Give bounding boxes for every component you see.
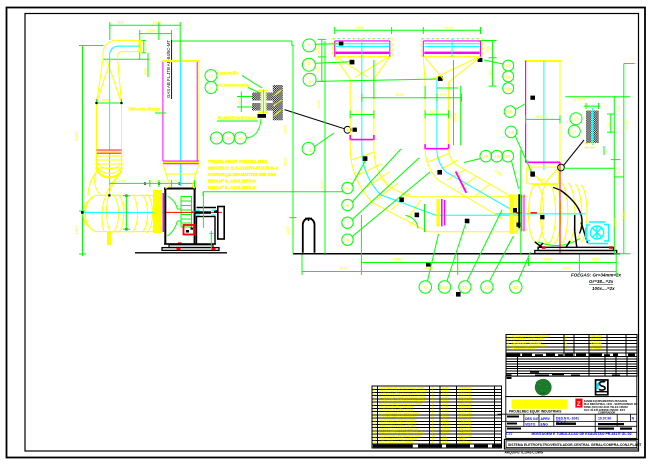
- hood 1 body: [335, 40, 390, 42]
- svg-text:370: 370: [150, 178, 157, 183]
- dim 50: [237, 92, 252, 113]
- weld sq on inlet box: [531, 173, 535, 177]
- flange detail (left view): [205, 70, 357, 144]
- svg-text:6: 6: [346, 203, 349, 208]
- svg-text:5: 5: [346, 186, 349, 191]
- callout circle + arrow: [558, 164, 565, 171]
- top elbow outer (yellow): [103, 40, 139, 59]
- motor bracket (black): [197, 207, 225, 245]
- fan base black: [535, 247, 617, 253]
- lower elbow to horizontal (yellow): [88, 172, 122, 232]
- fan drum rings yellow: [529, 183, 587, 243]
- funnel 1: [335, 57, 390, 79]
- svg-text:23: 23: [573, 117, 579, 122]
- stack cone: [97, 59, 122, 103]
- scroll black outline right: [561, 190, 582, 233]
- duct 1: [350, 79, 374, 135]
- svg-text:21: 21: [572, 129, 578, 134]
- weld squares right view: [350, 60, 535, 297]
- svg-text:1: 1: [308, 42, 311, 47]
- svg-text:1595: 1595: [453, 112, 458, 122]
- drain stub below duct: [107, 232, 111, 246]
- svg-text:MODELO: ILS-1120/H-P/JCR-N-2: MODELO: ILS-1120/H-P/JCR-N-2: [208, 166, 279, 171]
- company yellow band: [512, 400, 568, 409]
- far right verticals: [613, 97, 615, 254]
- ground line left view: [135, 252, 227, 254]
- duct1 dim: [350, 111, 374, 119]
- flange plates yellow: [258, 91, 268, 113]
- svg-text:100x....=2x: 100x....=2x: [592, 286, 615, 291]
- cone seam lines: [97, 59, 122, 103]
- balloons 28 19 17 row: [480, 150, 492, 162]
- svg-text:1:25: 1:25: [506, 432, 513, 436]
- svg-text:4: 4: [209, 86, 212, 91]
- canister: [303, 218, 315, 252]
- dim 3295 row: [362, 97, 462, 99]
- svg-text:Ø781: Ø781: [430, 109, 441, 114]
- svg-text:18: 18: [226, 136, 232, 141]
- top dim row 1: [110, 22, 180, 61]
- balloon numbers: [308, 42, 519, 290]
- company name under band: [509, 410, 561, 414]
- riser left edge magenta: [162, 62, 164, 161]
- elbow1 centerline: [362, 141, 436, 215]
- fan legs black: [535, 223, 588, 249]
- horizontal bellows duct rings: [83, 172, 157, 233]
- svg-text:3000: 3000: [424, 266, 434, 271]
- balloon 23: [570, 113, 582, 125]
- svg-text:CONJ 18: CONJ 18: [459, 440, 472, 444]
- svg-text:VEDAÇÃO: VEDAÇÃO: [219, 71, 239, 76]
- horizontal run: [410, 197, 517, 232]
- lower block outline: [506, 397, 637, 439]
- shaft (black): [195, 211, 212, 214]
- svg-text:760: 760: [316, 66, 321, 73]
- top elbow inner (yellow): [118, 52, 139, 60]
- elbow centerline (cyan): [110, 46, 140, 60]
- left vertical dims: [321, 39, 323, 81]
- big duct dim: [526, 115, 560, 123]
- base red pads: [177, 248, 181, 250]
- svg-text:CARCAÇA DO MOTOR 355 S/M: CARCAÇA DO MOTOR 355 S/M: [208, 172, 276, 177]
- dim 450 bracket: [142, 40, 146, 52]
- long green line to right view: [172, 41, 292, 46]
- funnel 2: [423, 57, 480, 82]
- hood 2 body: [423, 40, 480, 42]
- dims around detail: [584, 103, 614, 155]
- svg-text:10: 10: [442, 285, 448, 290]
- left duct (riser) to fan: [128, 60, 200, 189]
- riser top band yellow: [162, 60, 200, 62]
- fan centerline red: [559, 162, 561, 255]
- svg-text:11: 11: [462, 285, 467, 290]
- svg-text:MONTAGEM E TUBULACAO DE EXAUST: MONTAGEM E TUBULACAO DE EXAUSTAO PR-441 …: [532, 432, 632, 436]
- svg-text:7: 7: [346, 221, 349, 226]
- green leader from fan: [203, 192, 344, 249]
- svg-text:Ø1504: Ø1504: [536, 114, 549, 119]
- balloons 5..8: [342, 182, 353, 193]
- S logo box: [595, 379, 609, 396]
- svg-text:19: 19: [494, 154, 500, 159]
- svg-text:200: 200: [607, 122, 611, 128]
- inlet duct stubs yellow: [517, 197, 529, 230]
- flange detail (right): [558, 97, 614, 171]
- green stamp logo: [535, 379, 552, 396]
- green leader vertical: [202, 192, 204, 228]
- below ground dim row 1: [361, 262, 616, 264]
- svg-text:ENG: ENG: [541, 422, 549, 426]
- cone base dim: [97, 99, 122, 107]
- svg-text:46: 46: [238, 136, 244, 141]
- parts list yellow text rows: [373, 386, 471, 444]
- svg-text:PROJELMEC EQUIP. INDUSTRIAIS: PROJELMEC EQUIP. INDUSTRIAIS: [509, 410, 561, 414]
- riser right edge magenta+yellow: [196, 62, 198, 161]
- inlet box yellow: [527, 167, 559, 184]
- svg-text:SUPORTE DA CHAMINE: SUPORTE DA CHAMINE: [379, 440, 413, 444]
- svg-text:600: 600: [316, 46, 321, 53]
- address text right of Z: [584, 399, 638, 415]
- dim labels right view: [283, 45, 629, 270]
- revision table: [506, 335, 637, 357]
- svg-text:DES 047: DES 047: [525, 417, 539, 421]
- svg-text:Gr=38...=2x: Gr=38...=2x: [589, 279, 614, 284]
- fan centerline cyan: [495, 213, 585, 215]
- balloons 9..13: [419, 281, 431, 293]
- thin rows table: [506, 357, 637, 377]
- right view dimensions: [290, 39, 635, 275]
- leaders: [242, 76, 262, 93]
- svg-text:500: 500: [485, 45, 490, 52]
- svg-text:28: 28: [483, 154, 489, 159]
- svg-text:50: 50: [237, 100, 241, 104]
- hood1 weld mark: [339, 42, 344, 46]
- svg-text:1387: 1387: [285, 225, 290, 235]
- hood 1 insulation dashed outline: [332, 39, 393, 57]
- spec text block (yellow): [208, 159, 279, 190]
- hood 2 insulation dashed outline: [421, 39, 483, 57]
- svg-text:4627: 4627: [320, 179, 325, 189]
- duct centerline cyan: [83, 211, 167, 213]
- svg-text:DES.Nº IL-1041 REV.3: DES.Nº IL-1041 REV.3: [208, 179, 255, 184]
- elbow 1 (lobster-back): [350, 140, 428, 232]
- svg-text:1500: 1500: [316, 99, 321, 109]
- svg-text:1650: 1650: [591, 257, 601, 262]
- svg-text:Ø1420: Ø1420: [122, 203, 127, 216]
- svg-text:Ø781: Ø781: [355, 109, 366, 114]
- fan motor red box: [184, 225, 195, 235]
- elbow2 centerline: [437, 150, 512, 210]
- elbow 2: [425, 149, 517, 219]
- svg-text:1080: 1080: [146, 29, 156, 34]
- balloon 21: [568, 125, 580, 137]
- stack flange band (magenta): [97, 150, 122, 153]
- blue texts mid grid: [525, 416, 635, 426]
- svg-text:1000: 1000: [488, 69, 493, 79]
- duct 2: [425, 82, 449, 144]
- balloon 4: [205, 82, 217, 94]
- inlet flange magenta: [521, 195, 523, 232]
- svg-text:805: 805: [440, 92, 447, 97]
- small red tick: [178, 242, 181, 244]
- dim line 1420/370/1630/430: [110, 180, 195, 187]
- svg-text:16: 16: [506, 74, 512, 79]
- svg-text:2780: 2780: [543, 257, 553, 262]
- svg-text:FLANGE SOLDADA: FLANGE SOLDADA: [218, 116, 257, 121]
- hood 1 centerline: [361, 39, 363, 57]
- leaders: [315, 43, 338, 45]
- svg-text:4260: 4260: [623, 119, 628, 129]
- svg-text:Ø782: Ø782: [102, 98, 113, 103]
- riser bottom flange magenta band: [163, 161, 199, 164]
- svg-text:19: 19: [208, 74, 214, 79]
- black marks mid grid: [507, 416, 632, 430]
- balloons 17 16 18 15 14: [503, 60, 514, 71]
- duct2 flange magenta: [425, 144, 449, 149]
- riser centerline cyan: [180, 60, 182, 186]
- point markers: [81, 102, 181, 230]
- svg-text:FLANGE SOLTA: FLANGE SOLTA: [219, 82, 250, 87]
- svg-text:3070: 3070: [339, 266, 349, 271]
- balloons right view: [302, 39, 531, 293]
- svg-text:300: 300: [143, 68, 148, 75]
- balloon 1..4: [303, 39, 316, 52]
- svg-text:23: 23: [214, 136, 220, 141]
- hatch blocks: [252, 93, 261, 101]
- svg-text:12: 12: [484, 285, 490, 290]
- svg-text:3667: 3667: [562, 266, 572, 271]
- stack bell arcs: [97, 160, 123, 177]
- stack centerline (cyan): [109, 60, 111, 196]
- motor cyan: [586, 222, 609, 244]
- svg-text:15: 15: [507, 110, 513, 115]
- svg-text:ARQUIVO: IL1041-C.DWG: ARQUIVO: IL1041-C.DWG: [505, 451, 544, 455]
- double border title box: [504, 439, 638, 449]
- svg-text:1625: 1625: [444, 25, 454, 30]
- svg-text:3807: 3807: [283, 124, 288, 134]
- elbow coupling flange (yellow): [138, 40, 141, 53]
- svg-text:EMISSAO INICIAL: EMISSAO INICIAL: [512, 346, 536, 350]
- base red pads: [542, 246, 545, 249]
- diagonal flange magenta: [456, 172, 467, 193]
- black bit under flange: [258, 114, 267, 118]
- svg-text:13: 13: [513, 285, 519, 290]
- fan inlet flange magenta line: [162, 193, 164, 232]
- svg-text:2580: 2580: [393, 257, 403, 262]
- mid grid: [498, 414, 637, 438]
- duct2 dim: [425, 110, 449, 118]
- long verticals: [324, 41, 326, 254]
- svg-text:400: 400: [117, 20, 125, 25]
- fan inlet flange (yellow band): [510, 194, 515, 234]
- riser transition to fan: [163, 164, 199, 186]
- svg-text:17: 17: [506, 64, 512, 69]
- svg-text:500: 500: [616, 105, 621, 112]
- run flange yellow/magenta: [437, 199, 440, 226]
- svg-text:5807: 5807: [283, 156, 288, 166]
- svg-text:DES.Nº IL-1041 REV.3: DES.Nº IL-1041 REV.3: [208, 185, 255, 190]
- below ground dim row 2: [302, 271, 616, 273]
- fan internals (green): [168, 196, 200, 236]
- fan shaft centerline (red): [166, 211, 222, 213]
- FOLGAS note: [571, 273, 622, 292]
- svg-text:1500: 1500: [152, 20, 162, 25]
- gasket cyan: [263, 90, 265, 114]
- svg-text:18: 18: [506, 86, 512, 91]
- detail leader to right view: [285, 110, 345, 129]
- svg-text:1187: 1187: [613, 218, 618, 227]
- svg-text:780 extra flange: 780 extra flange: [128, 107, 161, 112]
- svg-text:14: 14: [508, 130, 514, 135]
- fan base (black): [162, 244, 219, 250]
- svg-text:17: 17: [505, 154, 511, 159]
- stack body (yellow): [97, 103, 122, 152]
- svg-text:01.06.90: 01.06.90: [591, 346, 602, 350]
- ground line right view: [293, 253, 620, 255]
- svg-text:8: 8: [346, 238, 349, 243]
- svg-text:1400: 1400: [116, 178, 126, 183]
- svg-text:5500: 5500: [74, 131, 79, 141]
- svg-text:430: 430: [174, 178, 181, 183]
- right hood dims: [492, 41, 494, 87]
- top dim row 2: [140, 30, 172, 60]
- svg-text:1357: 1357: [74, 225, 79, 235]
- dim 605 short: [437, 87, 458, 89]
- top dim over hoods: [335, 27, 481, 34]
- svg-text:FOLGAS: Gr=34mm=2x: FOLGAS: Gr=34mm=2x: [571, 273, 622, 278]
- scroll green bottom arc: [538, 239, 580, 246]
- revision black header marks: [506, 354, 635, 379]
- svg-text:2: 2: [308, 61, 311, 66]
- vertical dim in bellows: [123, 196, 130, 230]
- svg-text:450: 450: [144, 44, 149, 51]
- fan (right view): [293, 162, 620, 255]
- svg-text:GAS AB FL.JTB AB-84/5C-MT: GAS AB FL.JTB AB-84/5C-MT: [166, 40, 171, 98]
- hood2 weld marks: [438, 76, 443, 81]
- stack bellows: [95, 153, 124, 172]
- cyan ticks on shaft: [196, 210, 216, 233]
- svg-text:APRV: APRV: [541, 417, 551, 421]
- svg-text:1800: 1800: [355, 25, 365, 30]
- logo row: [506, 376, 637, 396]
- svg-text:A-36: A-36: [442, 440, 449, 444]
- Z logo red: [575, 399, 582, 408]
- parts list black header band: [373, 445, 501, 448]
- svg-text:3: 3: [308, 79, 311, 84]
- svg-text:SISTEMA ELETROFILTRO/VENTILADO: SISTEMA ELETROFILTRO/VENTILADOR-CENTRAL …: [508, 443, 642, 447]
- revision yellow text: [507, 334, 602, 350]
- svg-text:7080: 7080: [621, 210, 626, 220]
- fan inlet flange yellow band: [153, 190, 162, 233]
- svg-text:18: 18: [373, 440, 377, 444]
- svg-text:50: 50: [605, 149, 609, 153]
- balloons 23 18 46: [211, 132, 223, 144]
- fan housing (black): [164, 189, 196, 245]
- duct1 flange magenta: [350, 135, 374, 140]
- dim 5500/1357 vertical line: [79, 46, 103, 257]
- balloon 19: [205, 70, 217, 82]
- dim 300 under elbow: [103, 53, 149, 77]
- svg-text:VISTO: VISTO: [525, 422, 535, 426]
- svg-text:10.07.90: 10.07.90: [598, 417, 611, 421]
- duct weld square: [530, 96, 535, 100]
- svg-text:VENTILADOR PROJELMEC: VENTILADOR PROJELMEC: [208, 159, 268, 164]
- svg-text:3295: 3295: [395, 92, 405, 97]
- big duct: [525, 60, 562, 62]
- svg-text:9: 9: [424, 285, 427, 290]
- svg-text:600: 600: [616, 167, 621, 174]
- svg-text:4: 4: [309, 148, 312, 153]
- black vertical label on duct: [166, 40, 172, 99]
- svg-text:Z: Z: [577, 401, 581, 408]
